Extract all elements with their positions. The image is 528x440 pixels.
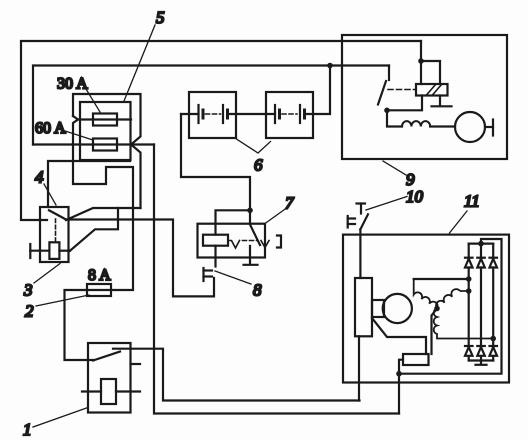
svg-text:5: 5 [156, 8, 165, 27]
diode D4 [465, 346, 473, 356]
diode D5 [477, 346, 485, 356]
svg-text:60 A: 60 A [35, 120, 66, 137]
wire fuse-box top loop [73, 94, 141, 208]
wire into battery A [181, 113, 199, 115]
wire 60A fuse line [33, 143, 154, 145]
label 1 [23, 408, 88, 440]
svg-text:8 A: 8 A [88, 267, 111, 284]
label 2 [25, 295, 89, 321]
rectifier column 2 [480, 244, 482, 361]
wire feed into relay 9 [420, 41, 422, 84]
switch 10 bracket contact [348, 216, 355, 228]
battery 6 cells A [199, 105, 228, 123]
relay 7 bracket terminal [277, 236, 281, 248]
switch 4 blade [49, 210, 66, 219]
wire 8A fuse branch [65, 208, 134, 360]
wire resistor to B+ node [399, 360, 403, 374]
label 8 [215, 271, 262, 300]
alternator ground [476, 361, 487, 365]
fuse F1 30A [93, 114, 117, 126]
node B+ [396, 371, 402, 377]
svg-text:4: 4 [35, 168, 44, 187]
wire inductor to motor [430, 125, 455, 127]
stator phase 3 winding [434, 309, 493, 339]
svg-text:1: 1 [23, 420, 32, 439]
mechanical link dashed [55, 219, 57, 241]
diode D2 [477, 258, 485, 268]
wire battery link [228, 113, 276, 115]
wire relay 1 contact to regulator [113, 349, 360, 401]
relay 7 coil bottom lead [214, 246, 216, 267]
fuse F3 8A [87, 284, 111, 296]
node battery tap junction [327, 63, 333, 69]
node phase2 [466, 288, 472, 294]
wire regulator bottom out [358, 336, 360, 400]
relay 9 ground [432, 96, 452, 107]
node relay 7 feed [247, 208, 253, 214]
brush block [372, 300, 384, 317]
relay 1 winding [101, 379, 116, 404]
rectifier top bus [469, 243, 494, 245]
relay 1 box [88, 343, 131, 413]
relay 9 link dashed [388, 89, 415, 91]
relay 9 winding hatched [416, 84, 448, 96]
svg-text:2: 2 [25, 302, 34, 321]
relay 1 contact blade [93, 352, 120, 361]
switch 10 blade [360, 214, 368, 229]
wire B+ bus in unit 11 [399, 239, 502, 374]
fuse F2 60A [93, 139, 117, 151]
rectifier column 1 [468, 244, 470, 361]
terminal bar left of switch 3 [30, 244, 70, 258]
wire switch output to relay 7 coil feed [66, 220, 214, 297]
label 8 A [88, 267, 111, 284]
label 30 A [57, 76, 100, 113]
wire accessory feed [33, 66, 389, 145]
node rectifier top [478, 241, 484, 247]
battery 6 box B [266, 92, 313, 138]
wire to motor coil [387, 110, 402, 126]
node switch 9 output [384, 108, 390, 114]
wire neutral to resistor [432, 309, 438, 355]
svg-text:30 A: 30 A [57, 76, 88, 93]
alternator 11 box [343, 235, 509, 383]
rectifier bottom bus [469, 359, 494, 361]
label 9 [383, 161, 415, 189]
wire solenoid to junction [70, 208, 118, 251]
label 3 [23, 264, 60, 300]
wire B+ down and out [398, 374, 400, 414]
node phase3 [490, 336, 496, 342]
svg-text:6: 6 [254, 156, 263, 175]
relay 1 terminal stubs [82, 364, 140, 392]
svg-text:11: 11 [464, 192, 480, 211]
wire fuse-box left pinch [73, 116, 133, 208]
relay 7 box [198, 224, 266, 258]
stator neutral node [434, 306, 440, 312]
label 60 A [35, 120, 93, 140]
battery 6 box A [189, 92, 236, 138]
diode D3 [490, 258, 498, 268]
relay 7 blade [250, 210, 260, 245]
label 11 [450, 192, 480, 234]
stator phase 2 winding [436, 289, 469, 308]
node phase1 [466, 276, 472, 282]
stator phase 1 winding [414, 279, 438, 309]
wire main feed loop [21, 41, 421, 220]
wire switch 9 to winding tap [387, 96, 422, 111]
unit 9 box [342, 35, 507, 159]
fuse block 5 body [80, 102, 131, 160]
switch 9 blade [378, 81, 386, 105]
wire battery to relay 7 [181, 114, 250, 210]
rotor circle [383, 294, 412, 323]
relay 7 coil top lead [216, 210, 251, 234]
wire 30A fuse line [78, 118, 131, 120]
diode D6 [490, 346, 498, 356]
svg-text:3: 3 [23, 281, 33, 300]
wire relay 9 parallel branch [421, 61, 440, 84]
wire brush to field resistor [372, 318, 426, 354]
relay 7 coil [203, 235, 228, 246]
wire fusebox bottom to ignition switch [48, 160, 130, 207]
switch 10 handle [357, 204, 366, 214]
connector 8 [204, 268, 213, 281]
svg-text:7: 7 [285, 194, 295, 213]
label 6 [237, 139, 271, 175]
inductor in unit 9 [402, 121, 430, 126]
solenoid of switch 3 [49, 242, 59, 259]
label 10 [366, 187, 424, 210]
label 5 [124, 8, 165, 101]
wire long vertical to B+ bus [154, 145, 399, 414]
relay 7 contact spring [228, 241, 269, 249]
rectifier column 3 [492, 244, 494, 361]
node relay 9 feed [418, 58, 424, 64]
switch 9 input [388, 66, 390, 81]
motor M in unit 9 [455, 112, 485, 142]
svg-text:10: 10 [406, 187, 424, 206]
label 7 [265, 194, 295, 224]
wire switch 10 to regulator [359, 230, 361, 279]
relay 7 contact ground [244, 246, 258, 265]
battery 6 cells B [275, 105, 305, 123]
regulator in unit 11 [355, 278, 372, 336]
resistor in unit 11 [403, 354, 429, 365]
switch unit 3 box [40, 207, 69, 262]
stator phase 1 lead [414, 278, 469, 280]
motor terminal [485, 120, 493, 136]
wire battery B to tap [305, 66, 331, 115]
diode D1 [465, 258, 473, 268]
svg-text:8: 8 [253, 281, 262, 300]
label 4 [35, 168, 56, 206]
wire fusebox to switch lever [66, 208, 141, 220]
